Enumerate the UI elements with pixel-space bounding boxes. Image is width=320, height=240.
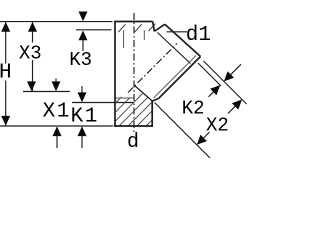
dimension K1 outside arrow bottom bbox=[81, 136, 83, 148]
pipe bore line right bbox=[143, 30, 145, 40]
svg-text:d: d bbox=[127, 131, 139, 154]
extension line L1 top reference bbox=[0, 21, 113, 23]
dimension X1 outside arrow top bbox=[55, 79, 57, 85]
svg-text:H: H bbox=[0, 61, 12, 84]
branch lower bore line bbox=[154, 56, 197, 99]
pipe top face bbox=[114, 21, 153, 23]
svg-text:X2: X2 bbox=[206, 115, 229, 137]
dimension X2 line bbox=[228, 105, 236, 113]
extension line L4 bbox=[72, 102, 134, 104]
d1 leader bbox=[167, 31, 188, 33]
svg-text:d1: d1 bbox=[186, 24, 211, 47]
pipe bottom face bbox=[114, 125, 153, 127]
dimension K2 outside arrow upper bbox=[230, 64, 241, 75]
junction diagonal bbox=[135, 86, 153, 102]
pipe bore line left bbox=[123, 30, 125, 48]
junction bend bbox=[152, 99, 158, 102]
dimension H arrow up bbox=[1, 22, 10, 32]
pipe right wall upper stub bbox=[153, 22, 155, 32]
extension line branch middle bbox=[198, 63, 221, 86]
branch lower wall bbox=[159, 57, 201, 99]
pipe left wall bbox=[114, 21, 116, 127]
hatch top socket bbox=[118, 24, 155, 33]
extension line end face bbox=[204, 61, 247, 104]
dimension H arrow down bbox=[1, 116, 10, 126]
branch upper wall bbox=[154, 24, 165, 31]
pipe and branch outline bbox=[114, 21, 201, 127]
dimension H line bbox=[5, 22, 7, 126]
dimension X2 arrow upper bbox=[232, 100, 242, 110]
branch socket depth line bbox=[157, 33, 190, 64]
dimension K3 outside arrow bottom bbox=[82, 37, 84, 51]
branch centerline bbox=[128, 44, 177, 93]
extension line L2 socket depth top bbox=[76, 29, 112, 31]
svg-text:X1: X1 bbox=[43, 101, 71, 124]
dimension X3 arrow down bbox=[27, 81, 36, 91]
hatch bottom socket bbox=[116, 94, 152, 126]
dimension K3 outside arrow top bbox=[82, 12, 84, 16]
dimension X1 outside arrow bottom bbox=[56, 136, 58, 148]
svg-text:K1: K1 bbox=[71, 105, 99, 128]
dimension X3 arrow up bbox=[28, 22, 37, 32]
branch end face bbox=[165, 24, 201, 56]
svg-text:K3: K3 bbox=[69, 49, 92, 71]
dimension X3 line bbox=[32, 22, 34, 92]
extension line L5 bottom reference bbox=[0, 125, 113, 127]
extension line pipe wall bbox=[155, 103, 211, 159]
extension line L3 bbox=[23, 91, 70, 93]
dimension K1 outside arrow top bbox=[81, 86, 83, 95]
svg-text:X3: X3 bbox=[19, 43, 42, 65]
dimension X2 arrow lower bbox=[197, 135, 207, 145]
dimension K2 outside arrow lower bbox=[209, 91, 215, 97]
main pipe centerline bbox=[133, 13, 135, 133]
svg-text:K2: K2 bbox=[182, 97, 205, 119]
pipe right wall lower bbox=[151, 100, 153, 127]
junction crotch line bbox=[115, 97, 134, 99]
